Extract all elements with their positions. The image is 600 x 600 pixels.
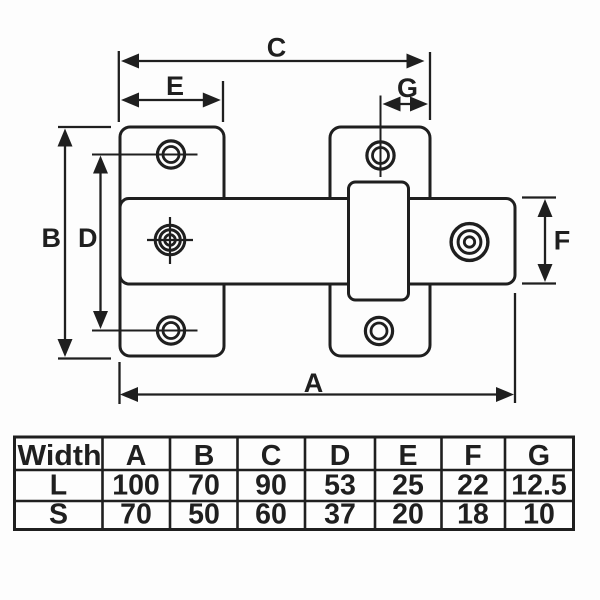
data table grid xyxy=(15,437,574,530)
svg-text:E: E xyxy=(398,440,417,472)
keeper bracket xyxy=(349,182,409,300)
svg-text:A: A xyxy=(126,440,147,472)
tick B top xyxy=(58,126,111,128)
tick B bottom xyxy=(58,357,111,359)
svg-text:L: L xyxy=(50,470,67,502)
slide bar xyxy=(120,199,515,285)
svg-text:S: S xyxy=(49,499,68,531)
extension line left (C/E) xyxy=(118,51,120,122)
svg-text:Width: Width xyxy=(18,440,102,472)
screw hole bottom-middle xyxy=(365,317,392,344)
arrow F up xyxy=(538,199,553,217)
arrow G left xyxy=(383,97,401,112)
svg-text:C: C xyxy=(261,440,282,472)
dimension D line xyxy=(99,169,101,316)
svg-text:D: D xyxy=(78,223,98,253)
svg-text:C: C xyxy=(267,33,287,63)
svg-text:F: F xyxy=(554,226,571,256)
table text xyxy=(18,440,567,531)
arrow A left xyxy=(120,387,138,402)
dimension B line xyxy=(64,142,66,343)
svg-text:53: 53 xyxy=(324,470,356,502)
screw hole bottom-left xyxy=(92,317,198,344)
svg-text:B: B xyxy=(42,223,62,253)
extension line A left xyxy=(118,362,120,404)
svg-text:G: G xyxy=(397,73,418,103)
svg-text:70: 70 xyxy=(120,499,152,531)
screw hole top-middle xyxy=(367,96,394,178)
center knob hole with crosshair xyxy=(147,217,193,264)
svg-text:50: 50 xyxy=(188,499,220,531)
arrow F down xyxy=(538,264,553,282)
arrow D down xyxy=(93,311,108,329)
svg-text:G: G xyxy=(528,440,550,472)
extension line C right xyxy=(429,52,431,120)
arrow C right xyxy=(407,54,425,69)
arrow D up xyxy=(93,156,108,174)
arrow B up xyxy=(58,129,73,147)
tick F top xyxy=(522,196,556,198)
dimension E line xyxy=(136,99,207,101)
screw hole top-left xyxy=(92,141,198,168)
svg-text:90: 90 xyxy=(255,470,287,502)
svg-text:22: 22 xyxy=(457,470,489,502)
svg-text:B: B xyxy=(194,440,215,472)
right backing plate xyxy=(330,127,430,356)
svg-text:60: 60 xyxy=(255,499,287,531)
svg-text:37: 37 xyxy=(324,499,356,531)
svg-text:12.5: 12.5 xyxy=(511,470,567,502)
arrow C left xyxy=(121,54,139,69)
left mounting plate xyxy=(120,127,224,356)
arrow E left xyxy=(121,93,139,108)
tick F bottom xyxy=(522,282,556,284)
extension line E right xyxy=(222,81,224,122)
svg-text:10: 10 xyxy=(523,499,555,531)
bar end hole right xyxy=(451,224,488,261)
extension line A right xyxy=(514,293,516,403)
svg-text:E: E xyxy=(166,71,184,101)
arrow A right xyxy=(496,387,514,402)
dimension F line xyxy=(544,212,546,269)
svg-text:100: 100 xyxy=(112,470,160,502)
dimension G line xyxy=(395,103,416,105)
dimension C line xyxy=(136,60,410,62)
arrow B down xyxy=(58,339,73,357)
svg-text:18: 18 xyxy=(457,499,489,531)
svg-text:A: A xyxy=(304,368,324,398)
dimension A line xyxy=(134,393,500,395)
svg-text:F: F xyxy=(464,440,481,472)
svg-text:20: 20 xyxy=(392,499,424,531)
svg-text:25: 25 xyxy=(392,470,424,502)
svg-text:70: 70 xyxy=(188,470,220,502)
arrow E right xyxy=(203,93,221,108)
arrow G right xyxy=(410,97,428,112)
svg-text:D: D xyxy=(330,440,351,472)
